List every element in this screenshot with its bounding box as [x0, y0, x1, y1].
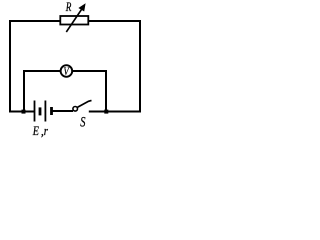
battery E cell1 long plate: [34, 101, 36, 122]
wire: bottom side, left segment to battery: [9, 111, 34, 113]
wire: voltmeter branch horizontal: [23, 70, 107, 72]
node junction right: [104, 110, 108, 114]
voltmeter U1 circle: [61, 65, 73, 77]
battery E cell1 short plate: [39, 107, 42, 115]
wire: bottom side, switch to right corner: [89, 111, 141, 113]
battery E cell2 short plate: [50, 107, 53, 115]
wire: voltmeter branch left vertical: [23, 70, 25, 112]
wire: outer loop left side: [9, 20, 11, 113]
wire: voltmeter branch right vertical: [105, 70, 107, 112]
wire: outer loop right side: [139, 20, 141, 113]
node junction left: [22, 110, 26, 114]
wire: bottom side, battery to switch: [53, 110, 74, 112]
switch S contact circle: [73, 107, 78, 112]
switch S lever: [77, 100, 91, 107]
resistor R1 arrowhead: [78, 3, 85, 11]
svg-text:S: S: [80, 115, 86, 131]
svg-text:R: R: [65, 0, 71, 14]
wire: outer loop top side: [9, 20, 141, 22]
resistor R1 box: [60, 16, 88, 25]
svg-text:r: r: [44, 123, 49, 138]
resistor R1 arrow shaft: [66, 10, 81, 33]
svg-text:E: E: [32, 123, 39, 138]
battery E cell2 long plate: [44, 101, 46, 122]
